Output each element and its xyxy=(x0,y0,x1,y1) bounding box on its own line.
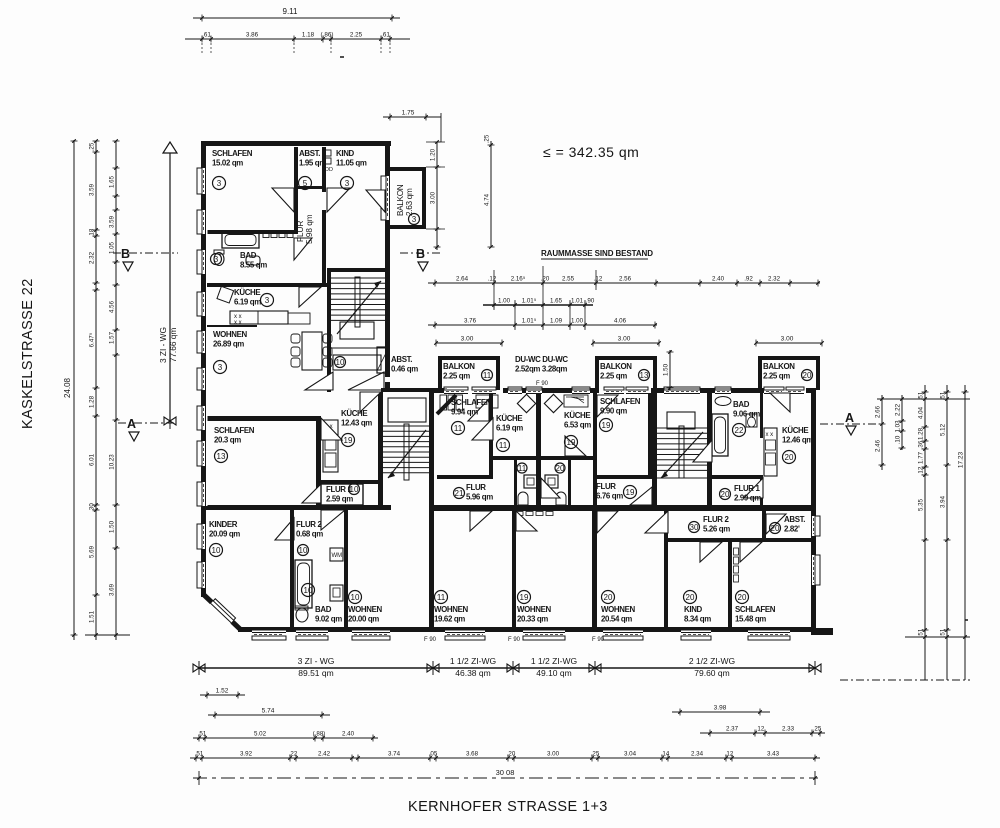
balkon1 top wall xyxy=(438,356,500,360)
svg-text:3: 3 xyxy=(412,215,417,224)
balkon3 label xyxy=(763,362,795,381)
flur1-299 east wall xyxy=(760,478,763,511)
SE corner foot xyxy=(811,628,833,635)
svg-text:5.02: 5.02 xyxy=(254,731,267,738)
label kueche 6.53 xyxy=(564,411,591,430)
outer wall SW chamfer xyxy=(203,594,241,630)
svg-text:20.33 qm: 20.33 qm xyxy=(517,615,548,624)
door flur596 top xyxy=(541,478,560,498)
svg-text:1.05: 1.05 xyxy=(109,241,116,254)
kueche619 bottom wall xyxy=(491,456,537,460)
left-wing apartment extent line xyxy=(163,142,177,429)
svg-text:4.56: 4.56 xyxy=(109,300,116,313)
circle 10 flur2 xyxy=(298,545,309,556)
bad906 bottom wall xyxy=(712,475,763,479)
svg-text:.14: .14 xyxy=(661,751,670,758)
svg-text:.51: .51 xyxy=(940,628,947,637)
window south 5 xyxy=(523,631,565,641)
bad906/kueche1246 wall xyxy=(760,393,763,438)
abst 0.46 closet xyxy=(377,347,388,373)
circle 11 schlafen994 xyxy=(452,422,465,435)
circle 19 kueche653 xyxy=(565,436,578,449)
svg-text:WOHNEN: WOHNEN xyxy=(517,605,551,614)
svg-text:1.03: 1.03 xyxy=(895,420,902,433)
kitchen counter wohnen xyxy=(230,311,288,324)
svg-text:9.94 qm: 9.94 qm xyxy=(451,408,478,417)
svg-text:2.99 qm: 2.99 qm xyxy=(734,494,761,503)
svg-text:FLUR: FLUR xyxy=(466,483,486,492)
svg-text:19: 19 xyxy=(602,421,611,430)
svg-text:2.63 qm: 2.63 qm xyxy=(405,188,414,216)
outer wall left-wing east upper xyxy=(385,141,390,377)
svg-text:F 90: F 90 xyxy=(592,637,605,643)
svg-text:BALKON: BALKON xyxy=(396,184,405,216)
svg-text:1.50: 1.50 xyxy=(663,363,670,376)
door flur2 kinder xyxy=(275,518,294,540)
right chain 4 xyxy=(940,385,951,680)
outer wall left-wing top xyxy=(201,141,391,146)
svg-text:2.16⁵: 2.16⁵ xyxy=(511,276,526,283)
svg-text:1.51: 1.51 xyxy=(89,610,96,623)
right chains header xyxy=(877,398,970,400)
svg-text:8.34 qm: 8.34 qm xyxy=(684,615,711,624)
svg-text:3 ZI - WG: 3 ZI - WG xyxy=(298,656,335,666)
wall schlafen/bad xyxy=(207,230,297,234)
svg-text:.25: .25 xyxy=(591,751,600,758)
corridor band wall xyxy=(433,505,816,511)
label wohnen 26.89 xyxy=(213,330,247,349)
schlafen99 bottom wall xyxy=(597,475,652,479)
svg-text:2.55: 2.55 xyxy=(562,276,575,283)
circle 10 flur1 xyxy=(349,484,360,495)
stairwell 2 treads xyxy=(383,398,430,480)
wall stair2 west xyxy=(378,392,383,510)
svg-text:1.52: 1.52 xyxy=(216,688,229,695)
door wohnen1962 xyxy=(470,511,492,531)
svg-text:2.37: 2.37 xyxy=(726,726,739,733)
svg-text:49.10 qm: 49.10 qm xyxy=(536,668,571,678)
stairwell 3 xyxy=(657,412,707,478)
svg-text:BALKON: BALKON xyxy=(443,362,475,371)
svg-text:FLUR 2: FLUR 2 xyxy=(296,520,322,529)
svg-text:89.51 qm: 89.51 qm xyxy=(298,668,333,678)
window west 9 xyxy=(197,482,208,506)
svg-text:.51: .51 xyxy=(918,628,925,637)
window south 7 xyxy=(681,631,711,641)
svg-text:.30: .30 xyxy=(89,503,96,512)
svg-text:1.28: 1.28 xyxy=(918,427,925,440)
svg-text:77.66 qm: 77.66 qm xyxy=(168,328,178,363)
label kueche 6.19b xyxy=(496,414,523,433)
stove kueche 6.19 xyxy=(217,286,234,303)
section marker A left xyxy=(118,417,175,441)
stair1 landing line xyxy=(331,347,385,349)
circle 20 schlafen1548 xyxy=(736,591,749,604)
svg-text:3.76: 3.76 xyxy=(464,318,477,325)
svg-text:.25: .25 xyxy=(484,134,491,143)
wm box bad 9.02 xyxy=(330,548,343,561)
svg-text:1.95 qm: 1.95 qm xyxy=(299,159,326,168)
bottom-wing bottom wall xyxy=(238,627,816,632)
svg-text:8.55 qm: 8.55 qm xyxy=(240,261,267,270)
svg-text:5.35: 5.35 xyxy=(918,498,925,511)
schlafen99 east wall xyxy=(648,393,652,478)
right chain 3 xyxy=(918,385,929,680)
bottom-wing top wall seg4 xyxy=(806,388,816,393)
svg-text:BALKON: BALKON xyxy=(600,362,632,371)
wall kueche/wohnen stub xyxy=(207,325,257,327)
bottom-wing top wall seg3 xyxy=(651,388,764,393)
window west 4 xyxy=(197,292,208,316)
flur1 2.59 outline xyxy=(321,484,363,505)
window west 6 xyxy=(197,368,208,390)
svg-text:1.57: 1.57 xyxy=(109,331,116,344)
door kueche653 xyxy=(565,436,586,456)
ext balcony dim bot xyxy=(426,228,445,230)
svg-text:2.25 qm: 2.25 qm xyxy=(763,372,790,381)
svg-text:(.88): (.88) xyxy=(313,731,326,738)
svg-text:BAD: BAD xyxy=(240,251,257,260)
circle 21 flur596 xyxy=(454,488,465,499)
svg-text:3: 3 xyxy=(218,363,223,372)
svg-text:KÜCHE: KÜCHE xyxy=(234,288,260,297)
balkon2 label xyxy=(600,362,632,381)
door kueche 6.19 xyxy=(299,287,321,307)
bad/wohnen20 wall xyxy=(344,510,348,627)
door kueche 12.43 xyxy=(360,392,381,412)
svg-text:19: 19 xyxy=(520,593,529,602)
sink bad 9.06 xyxy=(715,397,731,406)
svg-text:11: 11 xyxy=(437,593,446,602)
svg-text:2.33: 2.33 xyxy=(782,726,795,733)
svg-text:KASKELSTRASSE 22: KASKELSTRASSE 22 xyxy=(20,278,36,429)
window top middle 2 xyxy=(526,387,542,396)
section marker A right xyxy=(820,411,880,435)
door abst 282 xyxy=(766,514,786,534)
svg-text:DU-WC DU-WC: DU-WC DU-WC xyxy=(515,355,568,364)
label kind 11.05 xyxy=(336,149,367,168)
svg-text:KÜCHE: KÜCHE xyxy=(564,411,590,420)
svg-text:9.11: 9.11 xyxy=(283,7,299,16)
svg-text:3.00: 3.00 xyxy=(430,191,437,204)
svg-text:6.76 qm: 6.76 qm xyxy=(596,492,623,501)
svg-text:KÜCHE: KÜCHE xyxy=(782,426,808,435)
svg-text:ABST.: ABST. xyxy=(299,149,320,158)
door under balkon2 xyxy=(626,387,648,396)
toilet bad 9.02 xyxy=(296,608,308,622)
door under balkon1 xyxy=(472,387,496,396)
circle 20 wohnen2054 xyxy=(602,591,615,604)
wall kueche1243 west xyxy=(316,416,321,506)
svg-text:.92: .92 xyxy=(744,276,753,283)
stove diamond kueche 6.53 xyxy=(544,394,562,412)
kinder/bad wall xyxy=(290,510,294,627)
label abst 1.95 xyxy=(299,149,326,168)
svg-text:.61: .61 xyxy=(202,32,211,39)
svg-text:FLUR: FLUR xyxy=(296,221,305,242)
svg-text:19: 19 xyxy=(567,438,576,447)
circle 20 balkon3 xyxy=(802,370,813,381)
svg-text:2.32: 2.32 xyxy=(768,276,781,283)
svg-text:12.43 qm: 12.43 qm xyxy=(341,419,372,428)
junction top wall xyxy=(381,388,434,392)
svg-text:KÜCHE: KÜCHE xyxy=(341,409,367,418)
shelf tiles bad xyxy=(263,233,269,238)
svg-text:.20: .20 xyxy=(541,276,550,283)
label schlafen 9.94 xyxy=(451,398,492,417)
svg-text:F 90: F 90 xyxy=(508,637,521,643)
svg-text:BAD: BAD xyxy=(315,605,332,614)
wall kueche1243 bottom xyxy=(321,480,381,484)
svg-text:20: 20 xyxy=(556,464,565,473)
svg-text:11: 11 xyxy=(518,464,527,473)
window south 2 xyxy=(296,631,328,641)
svg-text:10: 10 xyxy=(304,586,313,595)
svg-text:3.68: 3.68 xyxy=(466,751,479,758)
door bad906 xyxy=(693,440,712,462)
circle 13 balkon2 xyxy=(639,370,650,381)
circle 10 kinder xyxy=(210,544,223,557)
label du-wc xyxy=(515,355,568,374)
svg-text:1.00: 1.00 xyxy=(498,298,511,305)
svg-text:x x: x x xyxy=(766,432,774,438)
wall schlafen-flur vertical xyxy=(294,147,298,234)
svg-text:3: 3 xyxy=(345,179,350,188)
svg-text:20: 20 xyxy=(738,593,747,602)
window west 1 xyxy=(197,168,208,194)
circle 19 flur676 xyxy=(624,486,637,499)
svg-text:3.43: 3.43 xyxy=(767,751,780,758)
svg-text:1.01⁵: 1.01⁵ xyxy=(522,318,537,325)
svg-text:WOHNEN: WOHNEN xyxy=(213,330,247,339)
svg-text:2.59 qm: 2.59 qm xyxy=(326,495,353,504)
balkon1 west wall xyxy=(438,356,442,390)
wall stair west vertical xyxy=(327,268,331,392)
svg-text:2.25: 2.25 xyxy=(350,32,363,39)
svg-text:2.25 qm: 2.25 qm xyxy=(443,372,470,381)
window stairwell3 xyxy=(664,387,700,396)
stove diamond kueche 6.19 xyxy=(517,394,535,412)
bathtub bad 9.06 xyxy=(712,414,728,456)
svg-text:0.46 qm: 0.46 qm xyxy=(391,365,418,374)
right chain 2 xyxy=(895,395,906,450)
DD closet boxes xyxy=(324,150,331,156)
svg-text:4.06: 4.06 xyxy=(614,318,627,325)
door flur1 2.59 xyxy=(302,484,321,503)
svg-text:19: 19 xyxy=(626,488,635,497)
stray mark right xyxy=(965,619,968,621)
svg-text:1.00: 1.00 xyxy=(571,318,584,325)
circle 10 bad902 xyxy=(302,584,315,597)
svg-text:20: 20 xyxy=(604,593,613,602)
label kueche 12.43 xyxy=(341,409,372,428)
balkon2 east wall xyxy=(653,356,657,390)
bottom-wing east wall xyxy=(811,388,816,632)
svg-text:5.26 qm: 5.26 qm xyxy=(703,525,730,534)
svg-text:2.34: 2.34 xyxy=(691,751,704,758)
svg-text:20: 20 xyxy=(721,490,730,499)
circle 3 kueche xyxy=(261,294,274,307)
dim row y283 xyxy=(428,276,820,287)
circle 20 abst282 xyxy=(770,523,781,534)
svg-text:3.00: 3.00 xyxy=(781,336,794,343)
svg-text:3.69: 3.69 xyxy=(109,583,116,596)
svg-text:26.89 qm: 26.89 qm xyxy=(213,340,244,349)
svg-text:2.64: 2.64 xyxy=(456,276,469,283)
window top middle 1 xyxy=(508,387,522,396)
window west 10 xyxy=(197,524,208,549)
svg-text:ABST.: ABST. xyxy=(784,515,805,524)
svg-text:3 ZI - WG: 3 ZI - WG xyxy=(158,327,168,363)
circle 11 wohnen1962 xyxy=(435,591,448,604)
dim 3.00 balkon2 xyxy=(591,336,661,347)
svg-text:3: 3 xyxy=(217,179,222,188)
dim 9.11 total xyxy=(193,15,400,22)
svg-text:FLUR: FLUR xyxy=(596,482,616,491)
svg-text:5.69: 5.69 xyxy=(89,545,96,558)
label kind 8.34 xyxy=(684,605,711,624)
dim 24.08 total xyxy=(71,139,78,640)
circle 3 bad xyxy=(211,254,222,265)
wc fixtures a xyxy=(524,475,537,488)
svg-text:20.3 qm: 20.3 qm xyxy=(214,436,241,445)
svg-text:.25: .25 xyxy=(89,142,96,151)
svg-text:1.75: 1.75 xyxy=(402,110,415,117)
circle 11 balkon1 xyxy=(482,370,493,381)
window on chamfer xyxy=(210,599,236,624)
svg-text:3.92: 3.92 xyxy=(240,751,253,758)
bottom-wing top wall seg2 xyxy=(503,388,599,393)
label wohnen 20.54 xyxy=(601,605,635,624)
svg-text:1.77: 1.77 xyxy=(918,451,925,464)
dim 3.00 balkon3 xyxy=(754,336,824,347)
svg-text:.90: .90 xyxy=(586,298,595,305)
dim row 738 xyxy=(193,731,378,742)
label bad 9.06 xyxy=(733,400,760,419)
svg-text:2.82': 2.82' xyxy=(784,525,800,534)
right chain 1 xyxy=(875,395,886,470)
svg-text:9.90 qm: 9.90 qm xyxy=(600,407,627,416)
balkon3 top wall xyxy=(758,356,820,360)
svg-text:4.74: 4.74 xyxy=(484,193,491,206)
svg-text:5.74: 5.74 xyxy=(262,708,275,715)
svg-text:3.00: 3.00 xyxy=(461,336,474,343)
bottom-wing top wall w-seg1 xyxy=(434,388,447,393)
door wohnen2054 xyxy=(597,511,618,533)
dim 3.00 balkon1 xyxy=(434,336,504,347)
door kueche1246 balkon xyxy=(770,393,790,412)
svg-text:SCHLAFEN: SCHLAFEN xyxy=(212,149,253,158)
wohnen2033/2054 wall xyxy=(592,510,597,627)
svg-text:KIND: KIND xyxy=(336,149,355,158)
svg-text:79.60 qm: 79.60 qm xyxy=(694,668,729,678)
door wohnen2033 xyxy=(516,511,537,531)
balkon2 west wall xyxy=(595,356,599,390)
window west 11 xyxy=(197,562,208,588)
svg-text:1 1/2 ZI-WG: 1 1/2 ZI-WG xyxy=(450,656,496,666)
svg-text:F 90: F 90 xyxy=(536,381,549,387)
flur2/abst divider xyxy=(762,511,766,542)
label kinder 20.09 xyxy=(209,520,240,539)
window south 6 xyxy=(603,631,643,641)
svg-text:10.23: 10.23 xyxy=(109,454,116,470)
svg-text:.12: .12 xyxy=(488,276,497,283)
door schlafen1548 xyxy=(740,542,762,562)
toilet bad 9.06 xyxy=(746,414,757,427)
svg-text:RAUMMASSE SIND BESTAND: RAUMMASSE SIND BESTAND xyxy=(541,249,653,258)
label schlafen 9.90 xyxy=(600,397,641,416)
kind shelf xyxy=(734,548,739,555)
svg-text:11: 11 xyxy=(454,424,463,433)
window west 2 xyxy=(197,210,208,234)
svg-text:2.32: 2.32 xyxy=(89,251,96,264)
label kueche 6.19a xyxy=(234,288,261,307)
door kind 11.05 xyxy=(327,188,350,212)
flur tiles xyxy=(516,512,523,516)
apt wall mid kueche xyxy=(536,393,541,505)
left chain inner xyxy=(89,139,100,640)
balcony B2.63 bottom wall xyxy=(389,225,426,229)
window west 7 xyxy=(197,406,208,430)
door balcony kind xyxy=(366,190,385,212)
right chains footer a xyxy=(905,636,970,638)
circle 20 kind834 xyxy=(684,591,697,604)
stair3 west wall xyxy=(652,388,657,510)
dim row 733 right xyxy=(700,726,825,737)
svg-text:30: 30 xyxy=(690,523,699,532)
wall abst bottom stub xyxy=(298,186,322,189)
svg-text:3.59: 3.59 xyxy=(109,215,116,228)
dim 3.98 xyxy=(672,705,770,716)
svg-text:.18: .18 xyxy=(89,228,96,237)
ext balcony dim mid xyxy=(426,166,445,168)
label bad 9.02 xyxy=(315,605,342,624)
window east abst xyxy=(810,516,821,536)
svg-text:KÜCHE: KÜCHE xyxy=(496,414,522,423)
svg-text:.05: .05 xyxy=(429,751,438,758)
circle 3 wohnen xyxy=(214,361,227,374)
svg-text:BAD: BAD xyxy=(733,400,750,409)
svg-text:5.12: 5.12 xyxy=(940,423,947,436)
circle 19 wohnen2033 xyxy=(518,591,531,604)
svg-text:2.42: 2.42 xyxy=(318,751,331,758)
svg-text:.36: .36 xyxy=(918,440,925,449)
svg-text:DD: DD xyxy=(325,167,333,173)
svg-text:15.48 qm: 15.48 qm xyxy=(735,615,766,624)
dim top sub-chain xyxy=(185,32,410,43)
svg-text:19.62 qm: 19.62 qm xyxy=(434,615,465,624)
svg-text:20.09 qm: 20.09 qm xyxy=(209,530,240,539)
svg-text:.12: .12 xyxy=(756,726,765,733)
schlafen994 chamfer xyxy=(437,395,456,414)
svg-text:3.59: 3.59 xyxy=(89,183,96,196)
svg-text:46.38 qm: 46.38 qm xyxy=(455,668,490,678)
svg-text:10: 10 xyxy=(350,485,359,494)
svg-text:≤ = 342.35 qm: ≤ = 342.35 qm xyxy=(543,144,639,160)
svg-text:9.06 qm: 9.06 qm xyxy=(733,410,760,419)
svg-text:.22: .22 xyxy=(289,751,298,758)
svg-text:2.52qm 3.28qm: 2.52qm 3.28qm xyxy=(515,365,567,374)
svg-text:6.01: 6.01 xyxy=(89,453,96,466)
wall corridor east vertical xyxy=(322,210,326,285)
label schlafen 15.48 xyxy=(735,605,776,624)
balkon1 label xyxy=(443,362,475,381)
wall abst-kind vertical xyxy=(322,147,326,192)
dim extension lines top xyxy=(201,39,203,55)
svg-text:5.96 qm: 5.96 qm xyxy=(466,493,493,502)
raummasse heading xyxy=(541,249,653,259)
svg-text:SCHLAFEN: SCHLAFEN xyxy=(735,605,776,614)
